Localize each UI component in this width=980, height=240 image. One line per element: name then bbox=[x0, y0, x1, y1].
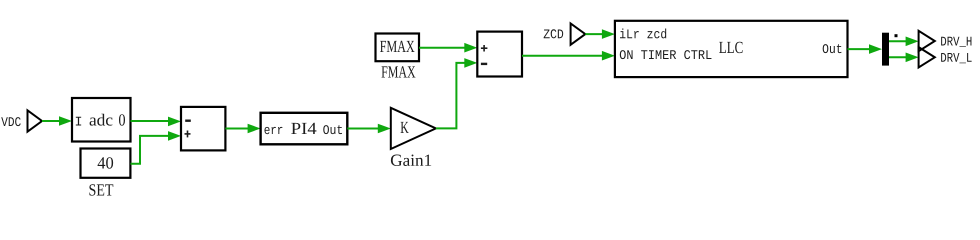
sum block Sum2 bbox=[477, 32, 522, 77]
sum block Sum1 bbox=[181, 107, 225, 150]
input port label ZCD bbox=[544, 29, 564, 38]
input port label VDC bbox=[1, 117, 20, 126]
input port VDC bbox=[28, 110, 43, 131]
wire Sum2 to LLC ON TIMER CTRL input bbox=[522, 51, 615, 61]
wire PI4 to Gain1 bbox=[347, 124, 391, 134]
wire Sum1 to PI4 bbox=[225, 124, 260, 134]
input port ZCD bbox=[571, 24, 586, 45]
subsystem block LLC bbox=[615, 21, 848, 77]
output port label DRV_H bbox=[941, 37, 971, 47]
label SET bbox=[89, 184, 113, 195]
wire ZCD to LLC iLr zcd input bbox=[585, 29, 615, 39]
junction dot bbox=[895, 34, 898, 37]
demux bbox=[882, 33, 889, 66]
label FMAX bbox=[381, 66, 415, 77]
wire demux to DRV_H bbox=[889, 37, 919, 47]
constant block SET value 40 bbox=[81, 149, 131, 178]
wire LLC Out to demux bbox=[848, 44, 883, 54]
gain block Gain1 bbox=[391, 108, 436, 149]
output port DRV_H bbox=[919, 31, 935, 51]
wire Gain1 to Sum2 minus input bbox=[436, 58, 477, 128]
wire demux to DRV_L bbox=[889, 53, 919, 63]
wire SET to Sum1 bbox=[131, 131, 182, 164]
output port label DRV_L bbox=[941, 53, 971, 63]
constant block FMAX bbox=[376, 34, 420, 62]
block adc bbox=[72, 98, 131, 142]
wire FMAX to Sum2 plus input bbox=[419, 43, 477, 53]
wire adc to Sum1 bbox=[131, 117, 182, 127]
block PI4 bbox=[261, 113, 348, 145]
label Gain1 bbox=[391, 155, 431, 166]
output port DRV_L bbox=[919, 47, 935, 67]
wire VDC to adc bbox=[42, 116, 72, 126]
